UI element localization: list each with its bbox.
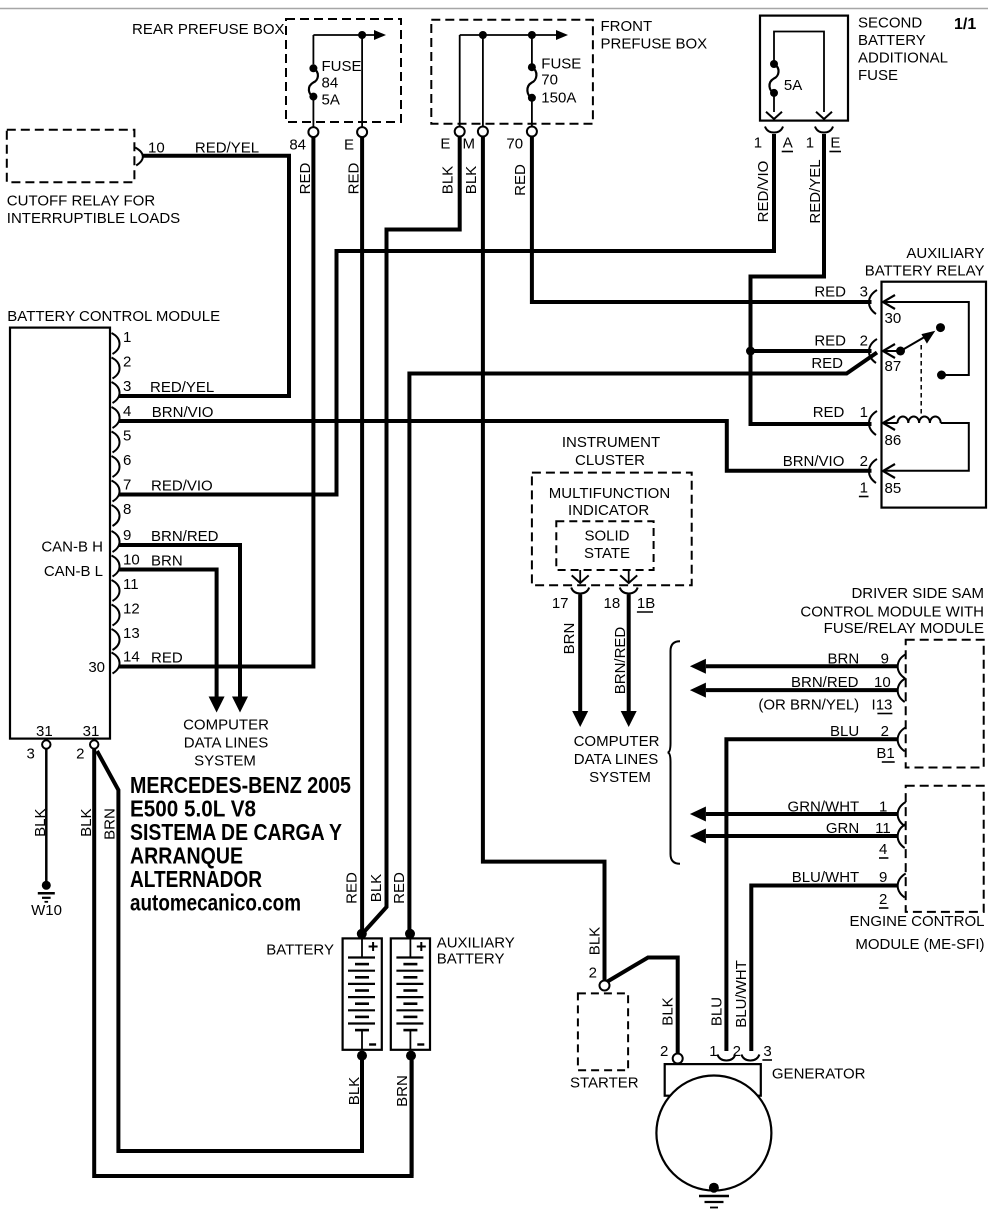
wire BRN: terminal 2 to battery - bbox=[97, 751, 362, 1151]
fuse 70 150A bbox=[527, 56, 581, 128]
junction dots in front prefuse box bbox=[479, 31, 487, 39]
relay switch arm 87 bbox=[883, 323, 945, 355]
svg-text:31: 31 bbox=[83, 723, 100, 740]
svg-text:RED/VIO: RED/VIO bbox=[755, 161, 772, 223]
fuse 84 5A bbox=[309, 58, 362, 127]
BCM pin 9 bbox=[112, 527, 132, 552]
wire: rear prefuse internal bus with arrow bbox=[313, 30, 386, 127]
svg-text:INTERRUPTIBLE LOADS: INTERRUPTIBLE LOADS bbox=[7, 210, 180, 227]
wire GRN/WHT: ECM pin 1 arrow bbox=[690, 807, 898, 822]
svg-text:70: 70 bbox=[506, 136, 523, 153]
brace: data lines group bbox=[668, 641, 681, 864]
svg-text:STATE: STATE bbox=[584, 545, 630, 562]
svg-text:CONTROL MODULE WITH: CONTROL MODULE WITH bbox=[800, 604, 984, 621]
node: computer data lines system (left) bbox=[183, 717, 269, 770]
svg-text:COMPUTER: COMPUTER bbox=[183, 717, 269, 734]
BCM pin 8 bbox=[112, 501, 132, 526]
svg-text:BLK: BLK bbox=[346, 1077, 363, 1105]
svg-text:BLK: BLK bbox=[368, 874, 385, 902]
svg-text:RED/VIO: RED/VIO bbox=[151, 478, 213, 495]
svg-text:18: 18 bbox=[604, 595, 621, 612]
wire BRN: SAM pin 9 to data lines arrow bbox=[690, 659, 898, 674]
top page border bbox=[0, 8, 988, 10]
relay coil 86-85 bbox=[883, 417, 969, 471]
svg-text:13: 13 bbox=[123, 625, 140, 642]
svg-text:RED: RED bbox=[346, 162, 363, 194]
svg-text:INSTRUMENT: INSTRUMENT bbox=[562, 434, 660, 451]
svg-text:BLU: BLU bbox=[709, 997, 726, 1026]
svg-text:COMPUTER: COMPUTER bbox=[574, 733, 660, 750]
terminal 2 bbox=[76, 740, 98, 762]
second battery additional fuse box bbox=[760, 15, 948, 121]
svg-text:30: 30 bbox=[885, 310, 902, 327]
svg-text:SOLID: SOLID bbox=[584, 528, 629, 545]
SAM pin 2 / B1 bbox=[830, 723, 906, 762]
starter terminal 2 bbox=[589, 965, 610, 991]
svg-text:RED/YEL: RED/YEL bbox=[150, 379, 214, 396]
svg-text:87: 87 bbox=[885, 358, 902, 375]
svg-text:FRONT: FRONT bbox=[601, 18, 653, 35]
svg-text:E500 5.0L V8: E500 5.0L V8 bbox=[130, 796, 256, 822]
svg-text:1B: 1B bbox=[637, 595, 655, 612]
cluster pin 18 arrow bbox=[620, 570, 637, 583]
svg-text:10: 10 bbox=[123, 552, 140, 569]
svg-text:8: 8 bbox=[123, 501, 131, 518]
node: battery - bbox=[357, 1051, 367, 1061]
svg-text:RED/YEL: RED/YEL bbox=[195, 140, 259, 157]
svg-text:MULTIFUNCTION: MULTIFUNCTION bbox=[549, 485, 670, 502]
svg-text:BATTERY RELAY: BATTERY RELAY bbox=[865, 263, 985, 280]
battery control module box bbox=[7, 308, 220, 739]
svg-text:31: 31 bbox=[36, 723, 53, 740]
BCM pin 13 bbox=[112, 625, 140, 650]
svg-text:1: 1 bbox=[709, 1043, 717, 1060]
svg-text:ADDITIONAL: ADDITIONAL bbox=[858, 50, 948, 67]
svg-text:BLK: BLK bbox=[78, 809, 95, 837]
svg-text:INDICATOR: INDICATOR bbox=[568, 502, 649, 519]
ECM pin 1 bbox=[788, 799, 906, 827]
fuse 5A bbox=[769, 60, 802, 97]
BCM pin 10 bbox=[112, 552, 140, 577]
BCM pin 5 bbox=[112, 428, 132, 453]
BCM pin 12 bbox=[112, 601, 140, 626]
instrument cluster box bbox=[532, 434, 692, 585]
svg-text:CAN-B L: CAN-B L bbox=[44, 563, 103, 580]
generator terminal 1 bbox=[709, 1043, 735, 1061]
engine control module box bbox=[849, 786, 984, 953]
svg-text:1: 1 bbox=[123, 329, 131, 346]
generator terminal 3 bbox=[762, 1043, 772, 1060]
svg-text:CUTOFF RELAY FOR: CUTOFF RELAY FOR bbox=[7, 193, 156, 210]
wire BRN: cluster 17 to computer data lines bbox=[578, 595, 582, 712]
wire RED/VIO: terminal A to BCM pin 7 bbox=[119, 134, 774, 495]
svg-text:RED/YEL: RED/YEL bbox=[807, 159, 824, 223]
wire BLK: starter to generator terminal 2 bbox=[608, 958, 678, 1054]
svg-text:CLUSTER: CLUSTER bbox=[575, 452, 645, 469]
svg-text:FUSE: FUSE bbox=[858, 67, 898, 84]
svg-text:1: 1 bbox=[754, 135, 762, 152]
ground W10 bbox=[31, 881, 62, 919]
battery bbox=[266, 938, 382, 1049]
cutoff relay pin 10 bbox=[135, 140, 164, 166]
svg-text:B1: B1 bbox=[876, 745, 894, 762]
wire BLK: terminal M to starter bbox=[483, 137, 605, 981]
svg-text:3: 3 bbox=[860, 284, 868, 301]
wire BRN/RED: BCM pin 9 to computer data lines bbox=[119, 545, 240, 698]
svg-text:E: E bbox=[440, 136, 450, 153]
svg-text:9: 9 bbox=[123, 527, 131, 544]
solid state box bbox=[556, 521, 653, 570]
wire: front prefuse internal bus with arrow bbox=[460, 30, 568, 131]
svg-text:RED: RED bbox=[814, 333, 846, 350]
front prefuse box bbox=[431, 18, 707, 124]
auxiliary battery relay box bbox=[865, 245, 986, 508]
wire BRN: auxiliary battery - down bbox=[410, 1056, 414, 1176]
wire RED: junction to relay pin 87 bbox=[751, 349, 872, 353]
relay switch dashed link bbox=[920, 345, 922, 418]
wire RED: terminal 70 to relay pin 30 bbox=[532, 137, 872, 303]
rear prefuse box bbox=[132, 19, 401, 122]
svg-text:BATTERY: BATTERY bbox=[437, 951, 505, 968]
BCM pin 7 bbox=[112, 477, 132, 502]
svg-text:RED: RED bbox=[811, 355, 843, 372]
svg-text:85: 85 bbox=[885, 480, 902, 497]
BCM pin 2 bbox=[112, 354, 132, 379]
generator terminal 2 (B-) circle bbox=[660, 1043, 683, 1064]
terminal E connector (second fuse) bbox=[806, 127, 841, 152]
svg-text:DRIVER SIDE SAM: DRIVER SIDE SAM bbox=[851, 585, 984, 602]
svg-text:A: A bbox=[783, 135, 793, 152]
wire BRN/RED: cluster 18 to computer data lines bbox=[627, 595, 631, 712]
svg-text:BLU/WHT: BLU/WHT bbox=[792, 869, 860, 886]
svg-text:PREFUSE BOX: PREFUSE BOX bbox=[601, 36, 708, 53]
svg-text:SISTEMA DE CARGA Y: SISTEMA DE CARGA Y bbox=[130, 819, 342, 845]
svg-text:DATA LINES: DATA LINES bbox=[574, 751, 658, 768]
wire GRN: ECM pin 11 arrow bbox=[690, 829, 898, 844]
svg-text:30: 30 bbox=[88, 659, 105, 676]
svg-text:70: 70 bbox=[541, 72, 558, 89]
cutoff relay box bbox=[7, 130, 180, 227]
SAM pin 9 bbox=[828, 651, 906, 679]
svg-text:W10: W10 bbox=[31, 902, 62, 919]
auxiliary battery bbox=[391, 935, 515, 1050]
wire BLK: battery - down bbox=[360, 1056, 364, 1151]
svg-text:1: 1 bbox=[806, 135, 814, 152]
svg-text:I13: I13 bbox=[872, 697, 893, 714]
wire BLU/WHT: ECM pin 9 to generator terminal 2 bbox=[751, 886, 897, 1052]
svg-text:REAR PREFUSE BOX: REAR PREFUSE BOX bbox=[132, 21, 285, 38]
generator ground bbox=[699, 1183, 729, 1208]
svg-text:MERCEDES-BENZ 2005: MERCEDES-BENZ 2005 bbox=[130, 772, 351, 798]
svg-text:150A: 150A bbox=[541, 90, 576, 107]
wire RED: battery + to relay pin 87 (diagonal) bbox=[409, 353, 877, 934]
starter box bbox=[570, 993, 639, 1091]
wire BRN/VIO: BCM pin 4 to relay pin 85 bbox=[119, 421, 872, 471]
svg-text:BRN/RED: BRN/RED bbox=[612, 627, 629, 695]
svg-text:ALTERNADOR: ALTERNADOR bbox=[130, 866, 262, 892]
svg-text:(OR BRN/YEL): (OR BRN/YEL) bbox=[758, 697, 859, 714]
wire RED/YEL: terminal E to relay junction bbox=[751, 134, 872, 424]
wire RED/YEL: cutoff relay to BCM pin 3 bbox=[119, 156, 289, 396]
svg-text:SYSTEM: SYSTEM bbox=[194, 753, 256, 770]
svg-text:2: 2 bbox=[76, 746, 84, 763]
svg-text:2: 2 bbox=[860, 453, 868, 470]
svg-text:11: 11 bbox=[123, 576, 139, 593]
wire BLK: terminal 3 to ground W10 bbox=[45, 749, 48, 881]
svg-text:DATA LINES: DATA LINES bbox=[184, 735, 268, 752]
wire BLK: terminal E (front) to battery + bbox=[364, 137, 460, 933]
wire RED: terminal E (rear) to battery + bbox=[360, 137, 364, 933]
relay internal wire from pin 30 bbox=[883, 302, 969, 380]
svg-text:1/1: 1/1 bbox=[954, 16, 976, 33]
svg-text:5A: 5A bbox=[784, 77, 802, 94]
BCM pin 6 bbox=[112, 452, 132, 477]
svg-text:BRN: BRN bbox=[561, 623, 578, 655]
svg-text:14: 14 bbox=[123, 649, 140, 666]
svg-text:BATTERY: BATTERY bbox=[266, 942, 334, 959]
svg-text:1: 1 bbox=[860, 404, 868, 421]
junction dot RED wires bbox=[746, 347, 755, 356]
svg-text:5: 5 bbox=[123, 428, 131, 445]
wire BLU: SAM pin 2 to generator terminal 1 bbox=[726, 739, 897, 1051]
svg-text:BRN/VIO: BRN/VIO bbox=[152, 404, 214, 421]
svg-text:4: 4 bbox=[879, 841, 887, 858]
svg-text:CAN-B H: CAN-B H bbox=[41, 539, 103, 556]
svg-text:5A: 5A bbox=[322, 92, 340, 109]
BCM pin 3 bbox=[112, 378, 132, 403]
terminal 3 bbox=[26, 740, 50, 762]
svg-text:7: 7 bbox=[123, 477, 131, 494]
svg-text:BATTERY CONTROL MODULE: BATTERY CONTROL MODULE bbox=[7, 308, 220, 325]
relay pin 2 / 85 bbox=[783, 453, 901, 497]
svg-text:12: 12 bbox=[123, 601, 140, 618]
BCM pin 14 bbox=[112, 649, 140, 674]
svg-text:2: 2 bbox=[589, 965, 597, 982]
cluster pin 17 arrow bbox=[572, 570, 589, 583]
terminal 70 bbox=[506, 127, 537, 153]
svg-text:2: 2 bbox=[860, 333, 868, 350]
svg-text:2: 2 bbox=[879, 891, 887, 908]
terminal M bbox=[463, 127, 488, 153]
svg-text:1: 1 bbox=[860, 480, 868, 497]
svg-text:E: E bbox=[830, 135, 840, 152]
diagram title text block bbox=[130, 772, 351, 915]
wire BLK: terminal 2 to auxiliary battery - bbox=[94, 749, 411, 1176]
svg-text:BRN/VIO: BRN/VIO bbox=[783, 453, 845, 470]
cluster terminal 18 / 1B bbox=[604, 588, 656, 613]
svg-text:RED: RED bbox=[344, 872, 361, 904]
svg-text:84: 84 bbox=[322, 75, 339, 92]
svg-text:SYSTEM: SYSTEM bbox=[589, 769, 651, 786]
svg-text:FUSE: FUSE bbox=[541, 56, 581, 73]
node: computer data lines system (right) bbox=[574, 733, 660, 786]
svg-text:E: E bbox=[344, 137, 354, 154]
wire BRN/RED: SAM pin 10 to data lines arrow bbox=[690, 683, 898, 698]
BCM pin wire labels bbox=[150, 379, 219, 667]
BCM pin 11 bbox=[112, 576, 139, 601]
svg-text:ARRANQUE: ARRANQUE bbox=[130, 842, 243, 868]
svg-text:3: 3 bbox=[123, 378, 131, 395]
svg-text:RED: RED bbox=[813, 404, 845, 421]
svg-text:automecanico.com: automecanico.com bbox=[130, 889, 301, 915]
svg-text:BLK: BLK bbox=[440, 166, 457, 194]
svg-text:2: 2 bbox=[733, 1043, 741, 1060]
BCM pin 4 bbox=[112, 403, 132, 428]
node: auxiliary battery + bbox=[405, 929, 415, 939]
generator terminal 2 bbox=[733, 1043, 760, 1061]
junction dot in rear prefuse box bbox=[358, 31, 366, 39]
svg-text:SECOND: SECOND bbox=[858, 15, 922, 32]
svg-text:3: 3 bbox=[763, 1043, 771, 1060]
BCM pin 1 bbox=[112, 329, 132, 354]
svg-text:2: 2 bbox=[123, 354, 131, 371]
svg-text:BLK: BLK bbox=[660, 997, 677, 1025]
wire RED: terminal 84 to BCM pin 30 bbox=[119, 137, 313, 666]
svg-text:BLK: BLK bbox=[32, 809, 49, 837]
svg-text:BATTERY: BATTERY bbox=[858, 32, 926, 49]
svg-text:2: 2 bbox=[660, 1043, 668, 1060]
svg-text:6: 6 bbox=[123, 452, 131, 469]
svg-text:RED: RED bbox=[391, 872, 408, 904]
svg-text:GENERATOR: GENERATOR bbox=[772, 1066, 866, 1083]
svg-text:RED: RED bbox=[512, 164, 529, 196]
wire: second fuse internal leads with down arrows bbox=[766, 32, 832, 120]
relay pin 2 / 87 bbox=[814, 333, 901, 376]
wire BRN: BCM pin 10 to computer data lines bbox=[119, 570, 217, 699]
svg-text:AUXILIARY: AUXILIARY bbox=[437, 935, 515, 952]
SAM pin 10 / I13 bbox=[758, 674, 905, 714]
terminal E (rear) bbox=[344, 127, 367, 153]
ECM pin 9 / 2 bbox=[792, 869, 906, 908]
node: auxiliary battery - bbox=[406, 1051, 416, 1061]
svg-text:84: 84 bbox=[289, 137, 306, 154]
svg-text:86: 86 bbox=[885, 432, 902, 449]
svg-text:MODULE (ME-SFI): MODULE (ME-SFI) bbox=[855, 936, 984, 953]
generator bbox=[656, 1064, 865, 1190]
svg-text:STARTER: STARTER bbox=[570, 1075, 639, 1092]
svg-text:9: 9 bbox=[879, 869, 887, 886]
svg-text:BRN/RED: BRN/RED bbox=[151, 528, 219, 545]
cluster terminal 17 bbox=[552, 588, 589, 613]
svg-text:BLU/WHT: BLU/WHT bbox=[733, 960, 750, 1028]
driver side SAM control module box bbox=[800, 585, 984, 768]
svg-text:4: 4 bbox=[123, 403, 131, 420]
svg-text:RED: RED bbox=[297, 162, 314, 194]
svg-text:BRN: BRN bbox=[102, 808, 119, 840]
svg-text:3: 3 bbox=[26, 746, 34, 763]
svg-text:ENGINE CONTROL: ENGINE CONTROL bbox=[849, 913, 984, 930]
svg-text:BRN: BRN bbox=[151, 553, 183, 570]
svg-text:RED: RED bbox=[814, 284, 846, 301]
svg-text:BLK: BLK bbox=[587, 927, 604, 955]
svg-text:FUSE: FUSE bbox=[322, 58, 362, 75]
terminal E (front) bbox=[440, 127, 464, 153]
svg-text:BRN: BRN bbox=[394, 1075, 411, 1107]
relay pin 1 / 86 bbox=[813, 404, 901, 449]
BCM ground pins 31 31 bbox=[36, 723, 99, 740]
svg-text:M: M bbox=[463, 136, 476, 153]
node: battery + bbox=[357, 929, 367, 939]
terminal 84 bbox=[289, 127, 318, 153]
svg-text:AUXILIARY: AUXILIARY bbox=[906, 245, 984, 262]
svg-text:RED: RED bbox=[151, 650, 183, 667]
terminal A connector bbox=[754, 127, 793, 152]
svg-text:BLK: BLK bbox=[463, 166, 480, 194]
ECM pin 11 / 4 bbox=[826, 820, 906, 858]
svg-text:17: 17 bbox=[552, 595, 569, 612]
multifunction indicator label bbox=[549, 485, 670, 519]
svg-text:FUSE/RELAY MODULE: FUSE/RELAY MODULE bbox=[824, 620, 984, 637]
relay pin 3 / 30 bbox=[814, 284, 901, 328]
